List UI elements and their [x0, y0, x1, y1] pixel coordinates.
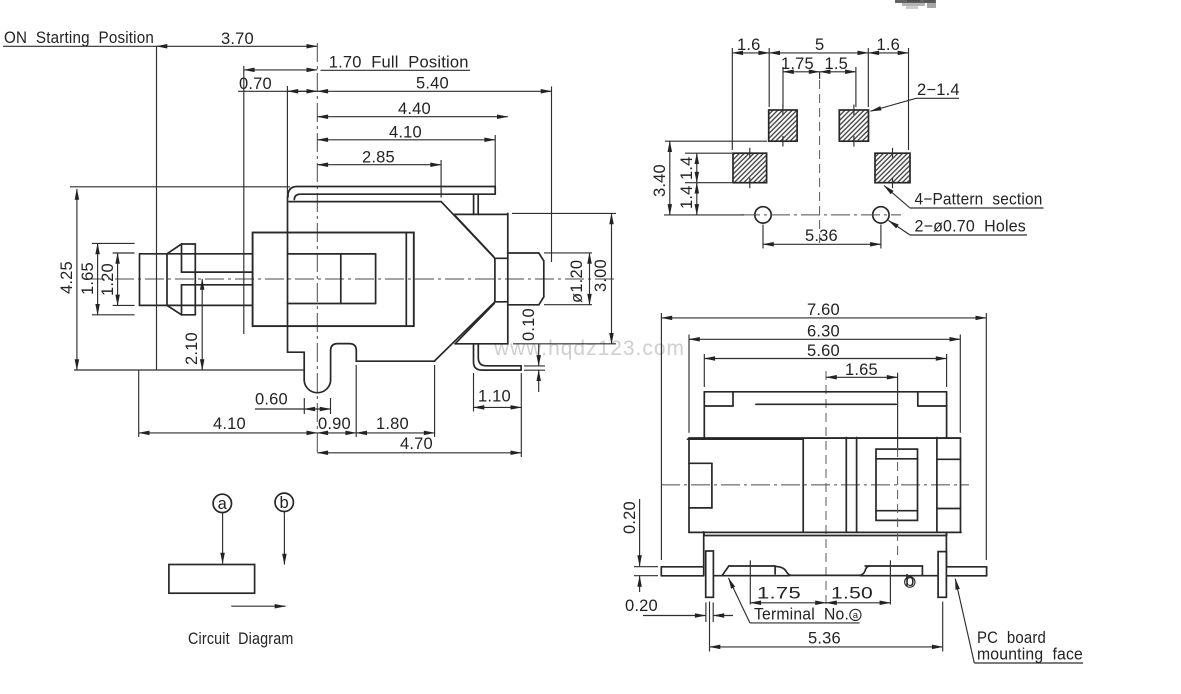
svg-text:1.65: 1.65 [79, 262, 97, 295]
svg-text:2−ø0.70 Holes: 2−ø0.70 Holes [915, 218, 1027, 236]
svg-text:ON Starting Position: ON Starting Position [4, 29, 154, 47]
svg-text:a: a [218, 495, 228, 513]
svg-text:1.4: 1.4 [678, 185, 696, 209]
svg-text:4.10: 4.10 [389, 124, 422, 142]
svg-text:0.20: 0.20 [625, 597, 658, 615]
svg-text:1.6: 1.6 [877, 36, 901, 54]
svg-text:b: b [280, 494, 289, 512]
svg-text:b: b [905, 572, 914, 590]
svg-text:2−1.4: 2−1.4 [917, 81, 960, 99]
svg-text:1.5: 1.5 [825, 55, 849, 73]
svg-text:4.70: 4.70 [400, 435, 433, 453]
svg-text:0.60: 0.60 [255, 391, 288, 409]
svg-text:1.20: 1.20 [99, 263, 117, 296]
svg-text:7.60: 7.60 [807, 301, 840, 319]
svg-text:1.75: 1.75 [781, 55, 814, 73]
svg-text:mounting face: mounting face [977, 646, 1083, 664]
svg-text:3.40: 3.40 [651, 164, 669, 197]
svg-text:Circuit Diagram: Circuit Diagram [188, 630, 294, 648]
svg-text:3.00: 3.00 [592, 259, 610, 292]
svg-text:1.6: 1.6 [737, 36, 761, 54]
svg-text:1.65: 1.65 [845, 361, 878, 379]
svg-text:0.10: 0.10 [520, 308, 538, 341]
svg-text:a: a [853, 610, 859, 621]
svg-text:2.10: 2.10 [183, 332, 201, 365]
svg-text:4.25: 4.25 [58, 261, 76, 294]
svg-text:6.30: 6.30 [807, 323, 840, 341]
svg-text:0.70: 0.70 [239, 75, 272, 93]
svg-text:1.80: 1.80 [376, 415, 409, 433]
svg-text:5.60: 5.60 [807, 342, 840, 360]
svg-text:4−Pattern section: 4−Pattern section [915, 191, 1043, 209]
svg-text:4.10: 4.10 [213, 415, 246, 433]
svg-text:ø1.20: ø1.20 [568, 260, 586, 303]
svg-text:4.40: 4.40 [398, 100, 431, 118]
svg-text:1.50: 1.50 [831, 585, 873, 603]
svg-text:2.85: 2.85 [362, 148, 395, 166]
svg-text:1.10: 1.10 [478, 388, 511, 406]
svg-text:1.75: 1.75 [757, 585, 801, 603]
svg-text:5.36: 5.36 [805, 227, 838, 245]
svg-text:0.90: 0.90 [318, 415, 351, 433]
svg-text:PC board: PC board [977, 629, 1046, 647]
svg-text:5.36: 5.36 [808, 630, 841, 648]
svg-text:5: 5 [815, 36, 824, 54]
svg-text:5.40: 5.40 [416, 75, 449, 93]
svg-text:3.70: 3.70 [221, 30, 254, 48]
svg-text:Terminal No.: Terminal No. [754, 606, 849, 624]
svg-text:0.20: 0.20 [621, 501, 639, 534]
svg-text:1.4: 1.4 [678, 156, 696, 180]
svg-text:1.70 Full Position: 1.70 Full Position [329, 54, 469, 72]
